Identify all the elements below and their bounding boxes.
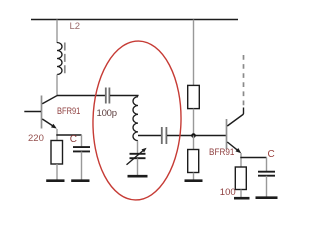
wire: rail down to resistor R2 xyxy=(193,20,195,86)
label BFR91 (Q2) xyxy=(209,148,234,158)
inductor L2 coil xyxy=(57,43,62,75)
wire: C1 bottom lead xyxy=(81,152,83,181)
wire: Q2 emitter down to tee xyxy=(240,153,242,167)
wire: coil bottom to variable capacitor xyxy=(137,141,139,154)
label 220 (R1) xyxy=(28,134,44,144)
wire: R1 bottom lead xyxy=(56,164,58,180)
wire: L2 bottom lead to collector node xyxy=(56,75,58,96)
annotation: red highlight ellipse xyxy=(91,40,183,201)
label 100 (R4) xyxy=(220,188,236,198)
transistor Q1 BFR91 base bar xyxy=(41,96,43,129)
wire: L2 top lead from rail xyxy=(56,20,58,44)
wire: R4 bottom lead xyxy=(240,190,242,198)
wire: tank tee to capacitor C3 xyxy=(138,135,161,137)
resistor R4 100 body xyxy=(235,167,246,190)
capacitor C2 100p plates xyxy=(105,88,107,104)
label C (C4) xyxy=(268,150,275,160)
wire: tee from emitter to capacitor C1 xyxy=(56,134,81,136)
capacitor C3 plates xyxy=(161,127,163,144)
wire: tee from Q2 emitter to capacitor C4 xyxy=(240,157,266,159)
variable capacitor CV arrow xyxy=(127,149,145,165)
ground under R3 xyxy=(185,179,203,182)
wire: C4 top lead xyxy=(266,158,268,172)
resistor R2 upper bias body xyxy=(188,85,200,108)
transistor Q2 collector lead xyxy=(227,108,243,127)
resistor R3 lower bias body xyxy=(188,150,199,173)
transistor Q1 emitter lead with arrow xyxy=(42,119,53,126)
label L2 xyxy=(70,22,81,32)
wire: C1 top lead xyxy=(81,135,83,147)
label C (C1) xyxy=(70,135,77,145)
transistor Q1 collector lead xyxy=(42,96,57,104)
ground under CV xyxy=(128,175,148,178)
node: junction dot at base divider xyxy=(191,133,196,138)
wire: C3 to base node to Q2 base xyxy=(167,135,226,137)
label 100p (C2) xyxy=(97,109,117,119)
ground under C4 xyxy=(256,196,278,199)
inductor L2 core dashed line xyxy=(64,43,66,74)
wire: Q1 base lead xyxy=(24,111,41,113)
dashed collector stub (off-page) xyxy=(243,55,245,106)
wire: R3 bottom lead xyxy=(193,173,195,181)
wire: Q1 emitter down to tee xyxy=(56,129,58,141)
capacitor C1 plates xyxy=(73,146,90,148)
wire: node down to resistor R3 xyxy=(193,136,195,150)
wire: R2 bottom lead to node xyxy=(193,109,195,136)
transistor Q2 emitter lead with arrow xyxy=(227,142,237,150)
ground under C1 xyxy=(71,179,89,182)
wire: C2 to tank coil top xyxy=(110,95,139,97)
resistor R1 220 body xyxy=(51,141,63,165)
variable capacitor CV plates xyxy=(130,153,146,155)
wire: C4 bottom lead xyxy=(266,176,268,197)
ground under R4 xyxy=(234,197,250,200)
inductor tank coil xyxy=(133,97,138,141)
label BFR91 (Q1) xyxy=(57,107,80,117)
wire: CV bottom lead xyxy=(137,158,139,175)
ground under R1 xyxy=(46,179,64,182)
wire: top supply rail xyxy=(31,19,238,21)
transistor Q2 BFR91 base bar xyxy=(226,119,228,149)
wire: collector node to coupling capacitor C2 xyxy=(57,95,105,97)
capacitor C4 plates xyxy=(258,171,275,173)
